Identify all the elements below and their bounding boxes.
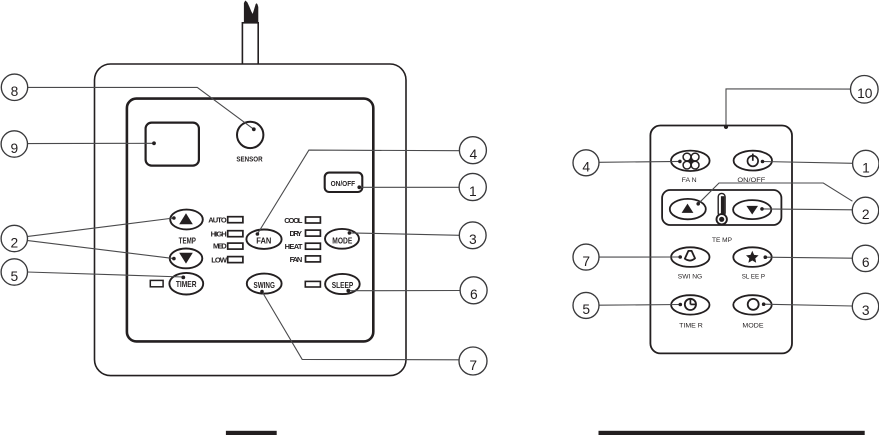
- svg-text:HIGH: HIGH: [211, 230, 227, 239]
- svg-text:4: 4: [470, 147, 478, 162]
- svg-text:1: 1: [862, 160, 870, 175]
- svg-text:FAN: FAN: [290, 255, 303, 264]
- svg-text:MODE: MODE: [332, 235, 352, 245]
- svg-text:6: 6: [862, 255, 870, 270]
- svg-text:1: 1: [469, 184, 477, 199]
- svg-text:SLEEP: SLEEP: [332, 280, 354, 290]
- svg-text:7: 7: [469, 358, 477, 373]
- svg-text:MODE: MODE: [742, 322, 764, 329]
- svg-text:2: 2: [10, 235, 18, 250]
- svg-text:3: 3: [862, 303, 870, 318]
- svg-text:8: 8: [11, 84, 19, 99]
- svg-text:9: 9: [10, 141, 18, 156]
- svg-text:5: 5: [582, 302, 590, 317]
- svg-text:SWING: SWING: [254, 280, 275, 290]
- svg-text:TIME R: TIME R: [679, 322, 703, 329]
- svg-text:TE MP: TE MP: [712, 237, 733, 244]
- svg-text:3: 3: [469, 232, 477, 247]
- svg-text:COOL: COOL: [284, 216, 303, 225]
- svg-text:6: 6: [470, 287, 478, 302]
- svg-text:2: 2: [862, 207, 870, 222]
- svg-text:10: 10: [857, 86, 873, 101]
- svg-text:FAN: FAN: [256, 235, 271, 245]
- svg-text:FA N: FA N: [682, 177, 697, 184]
- svg-text:SL EE P: SL EE P: [742, 274, 766, 281]
- svg-text:7: 7: [582, 254, 590, 269]
- svg-text:HEAT: HEAT: [285, 242, 303, 251]
- svg-text:TEMP: TEMP: [179, 236, 197, 246]
- svg-text:TIMER: TIMER: [176, 279, 197, 289]
- svg-text:LOW: LOW: [211, 256, 228, 265]
- svg-text:5: 5: [10, 269, 18, 284]
- svg-text:4: 4: [582, 160, 590, 175]
- svg-text:AUTO: AUTO: [208, 215, 227, 224]
- svg-text:DRY: DRY: [290, 229, 303, 238]
- svg-text:MED: MED: [213, 242, 227, 251]
- svg-text:SENSOR: SENSOR: [236, 155, 263, 164]
- svg-text:SWI NG: SWI NG: [678, 274, 702, 281]
- svg-text:ON/OFF: ON/OFF: [331, 179, 356, 188]
